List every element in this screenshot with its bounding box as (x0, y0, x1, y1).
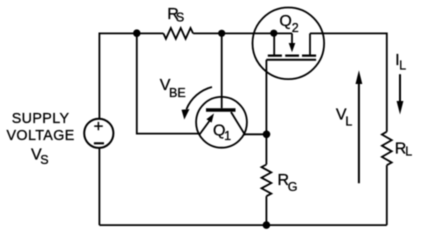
svg-text:L: L (399, 59, 406, 73)
supply voltage label (6, 111, 74, 167)
svg-text:L: L (345, 114, 352, 128)
transistor Q2 (252, 8, 324, 80)
junction node B dot (263, 131, 271, 139)
junction node A dot (133, 29, 141, 37)
Q2 source stub (309, 33, 311, 54)
Q2 body arrow (291, 33, 293, 45)
supply voltage source VS (84, 119, 113, 148)
svg-text:S: S (176, 11, 184, 25)
wire: base wire down to Q1 (221, 33, 223, 108)
svg-text:SUPPLY: SUPPLY (12, 111, 70, 127)
svg-text:G: G (288, 180, 298, 194)
svg-text:BE: BE (169, 86, 186, 100)
junction bottom node dot (263, 221, 271, 229)
svg-text:1: 1 (224, 129, 231, 143)
VL arrow (356, 70, 363, 183)
Q2 gate line (266, 59, 316, 61)
junction Q2 drain dot (270, 30, 277, 37)
wire: supply top to RS (99, 33, 163, 118)
wire: RG bottom to bottom rail (265, 196, 267, 225)
wire: RS to Q2 drain/body (193, 32, 292, 34)
label Q2 (279, 13, 298, 35)
transistor Q1 (196, 97, 247, 148)
resistor RS (163, 28, 193, 39)
svg-text:2: 2 (292, 21, 299, 35)
svg-text:L: L (405, 145, 412, 159)
label RG (278, 172, 298, 194)
wire: Q2 source to top-right corner down to RL (310, 33, 387, 131)
label VBE (160, 77, 186, 100)
wire: Q1 collector to node B (244, 133, 267, 135)
wire: bottom-left up to supply (98, 148, 100, 225)
label Q1 (213, 122, 231, 142)
wire: Q2 gate down through node B to RG (265, 60, 267, 165)
svg-text:S: S (40, 153, 48, 167)
svg-text:VOLTAGE: VOLTAGE (6, 128, 74, 144)
wire: node A drop to Q1 emitter (137, 33, 200, 133)
label IL (395, 52, 406, 73)
resistor RL (382, 132, 392, 166)
Q2 drain stub (273, 33, 275, 54)
svg-text:Q: Q (279, 13, 291, 30)
wire: bottom rail (99, 224, 386, 226)
label RL (395, 140, 413, 158)
IL arrow (397, 74, 404, 114)
resistor RG (262, 165, 272, 197)
wire: RL bottom to bottom-right corner (386, 165, 388, 225)
label VL (336, 107, 353, 129)
label RS (167, 6, 184, 25)
junction base node dot (218, 30, 225, 37)
VBE arc arrow (182, 87, 213, 120)
Q2 channel bars (268, 54, 316, 56)
